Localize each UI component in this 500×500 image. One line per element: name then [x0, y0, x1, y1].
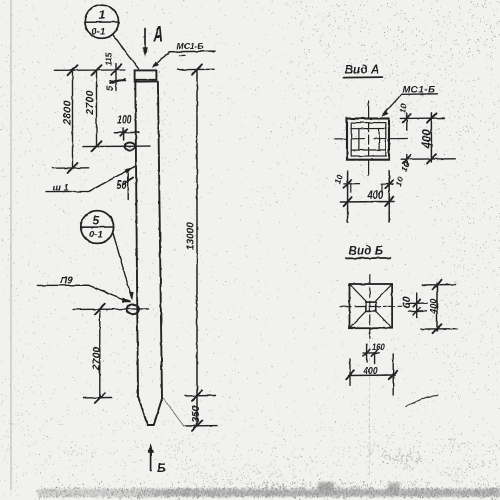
view B dim 160	[363, 344, 379, 364]
svg-text:400: 400	[429, 299, 439, 315]
left scan fold line	[10, 0, 12, 490]
bottom scan smudge band	[38, 482, 500, 497]
label MC1-B view A with leader	[381, 94, 437, 117]
svg-text:Б: Б	[157, 461, 166, 475]
svg-text:2700: 2700	[90, 346, 102, 371]
dimension 100	[115, 128, 140, 140]
view B centre square	[366, 302, 376, 311]
dimension 115 with ticks	[54, 64, 126, 91]
view A outer square	[347, 119, 389, 160]
svg-text:50: 50	[117, 179, 127, 193]
dimension 2800	[53, 65, 89, 173]
svg-text:0-1: 0-1	[89, 229, 103, 240]
lifting loop 2	[127, 304, 139, 314]
dimension 2700 lower	[84, 304, 113, 403]
view A dim 10 bottom left	[344, 180, 360, 192]
leader Sh1	[46, 166, 136, 192]
leader P9	[38, 285, 131, 302]
view B centre line vertical	[369, 274, 371, 338]
view B square	[350, 284, 393, 328]
view B diagonals	[350, 285, 391, 327]
balloon 1 text	[92, 7, 106, 38]
svg-text:350: 350	[190, 405, 202, 423]
balloon 5 (callout 5 / 0-1)	[81, 211, 134, 301]
diagonal stray line at pile tip	[162, 397, 184, 427]
view B dim 400 bottom	[346, 354, 397, 395]
svg-text:400: 400	[367, 189, 384, 202]
dimension 2700 upper	[83, 65, 150, 151]
section arrow A (top)	[142, 29, 148, 57]
svg-text:13000: 13000	[186, 222, 197, 250]
balloon 1 (callout 1 / 0-1)	[85, 5, 139, 69]
view A dim 400 right	[401, 113, 455, 163]
view B dim 400 right	[421, 280, 457, 333]
view A dim 400 bottom	[340, 197, 394, 206]
pile shaft	[135, 80, 162, 425]
view B centre line horizontal	[340, 305, 402, 307]
view A dim 10 top right	[400, 113, 444, 130]
pile cap MC1-B	[134, 70, 157, 81]
svg-text:400: 400	[363, 365, 379, 377]
svg-text:2800: 2800	[62, 100, 74, 126]
view A dim 10 bottom right2	[381, 180, 393, 193]
view A inner horizontals	[351, 128, 386, 130]
svg-text:160: 160	[372, 341, 385, 352]
svg-text:0-1: 0-1	[92, 27, 106, 38]
svg-text:ш 1: ш 1	[53, 182, 69, 193]
svg-text:МС1-Б: МС1-Б	[403, 85, 436, 96]
svg-text:Вид Б: Вид Б	[349, 245, 384, 257]
svg-text:1: 1	[98, 7, 105, 22]
svg-text:5: 5	[93, 213, 100, 227]
loop 2 extension line	[73, 308, 149, 311]
view A inner square	[351, 123, 386, 156]
dimension 50	[124, 172, 133, 201]
view A below: extension lines	[348, 170, 390, 222]
label MC1-B top with leader	[152, 51, 215, 68]
view A centre line vertical	[368, 101, 370, 176]
svg-text:Вид А: Вид А	[345, 65, 380, 77]
view A title	[345, 65, 380, 77]
svg-text:МС1-Б: МС1-Б	[177, 41, 204, 51]
stray curve artifact	[406, 396, 438, 407]
svg-text:А: А	[153, 22, 163, 46]
section arrow B (bottom)	[148, 443, 154, 470]
dimension 13000	[177, 64, 217, 431]
lifting loop 1	[125, 143, 136, 151]
view A dim 10 bottom right	[403, 154, 411, 165]
svg-text:10: 10	[397, 103, 409, 114]
view B faint centre continuation	[368, 340, 370, 478]
svg-text:400: 400	[422, 129, 434, 150]
svg-text:115: 115	[104, 52, 114, 65]
view A inner verticals	[358, 129, 360, 150]
svg-text:60: 60	[401, 295, 413, 308]
svg-text:2700: 2700	[84, 90, 96, 116]
view A centre marks	[352, 138, 364, 140]
svg-text:П9: П9	[60, 276, 73, 287]
view A centre line horizontal	[335, 138, 408, 140]
svg-text:100: 100	[118, 114, 132, 127]
view B dim 60	[408, 293, 427, 318]
